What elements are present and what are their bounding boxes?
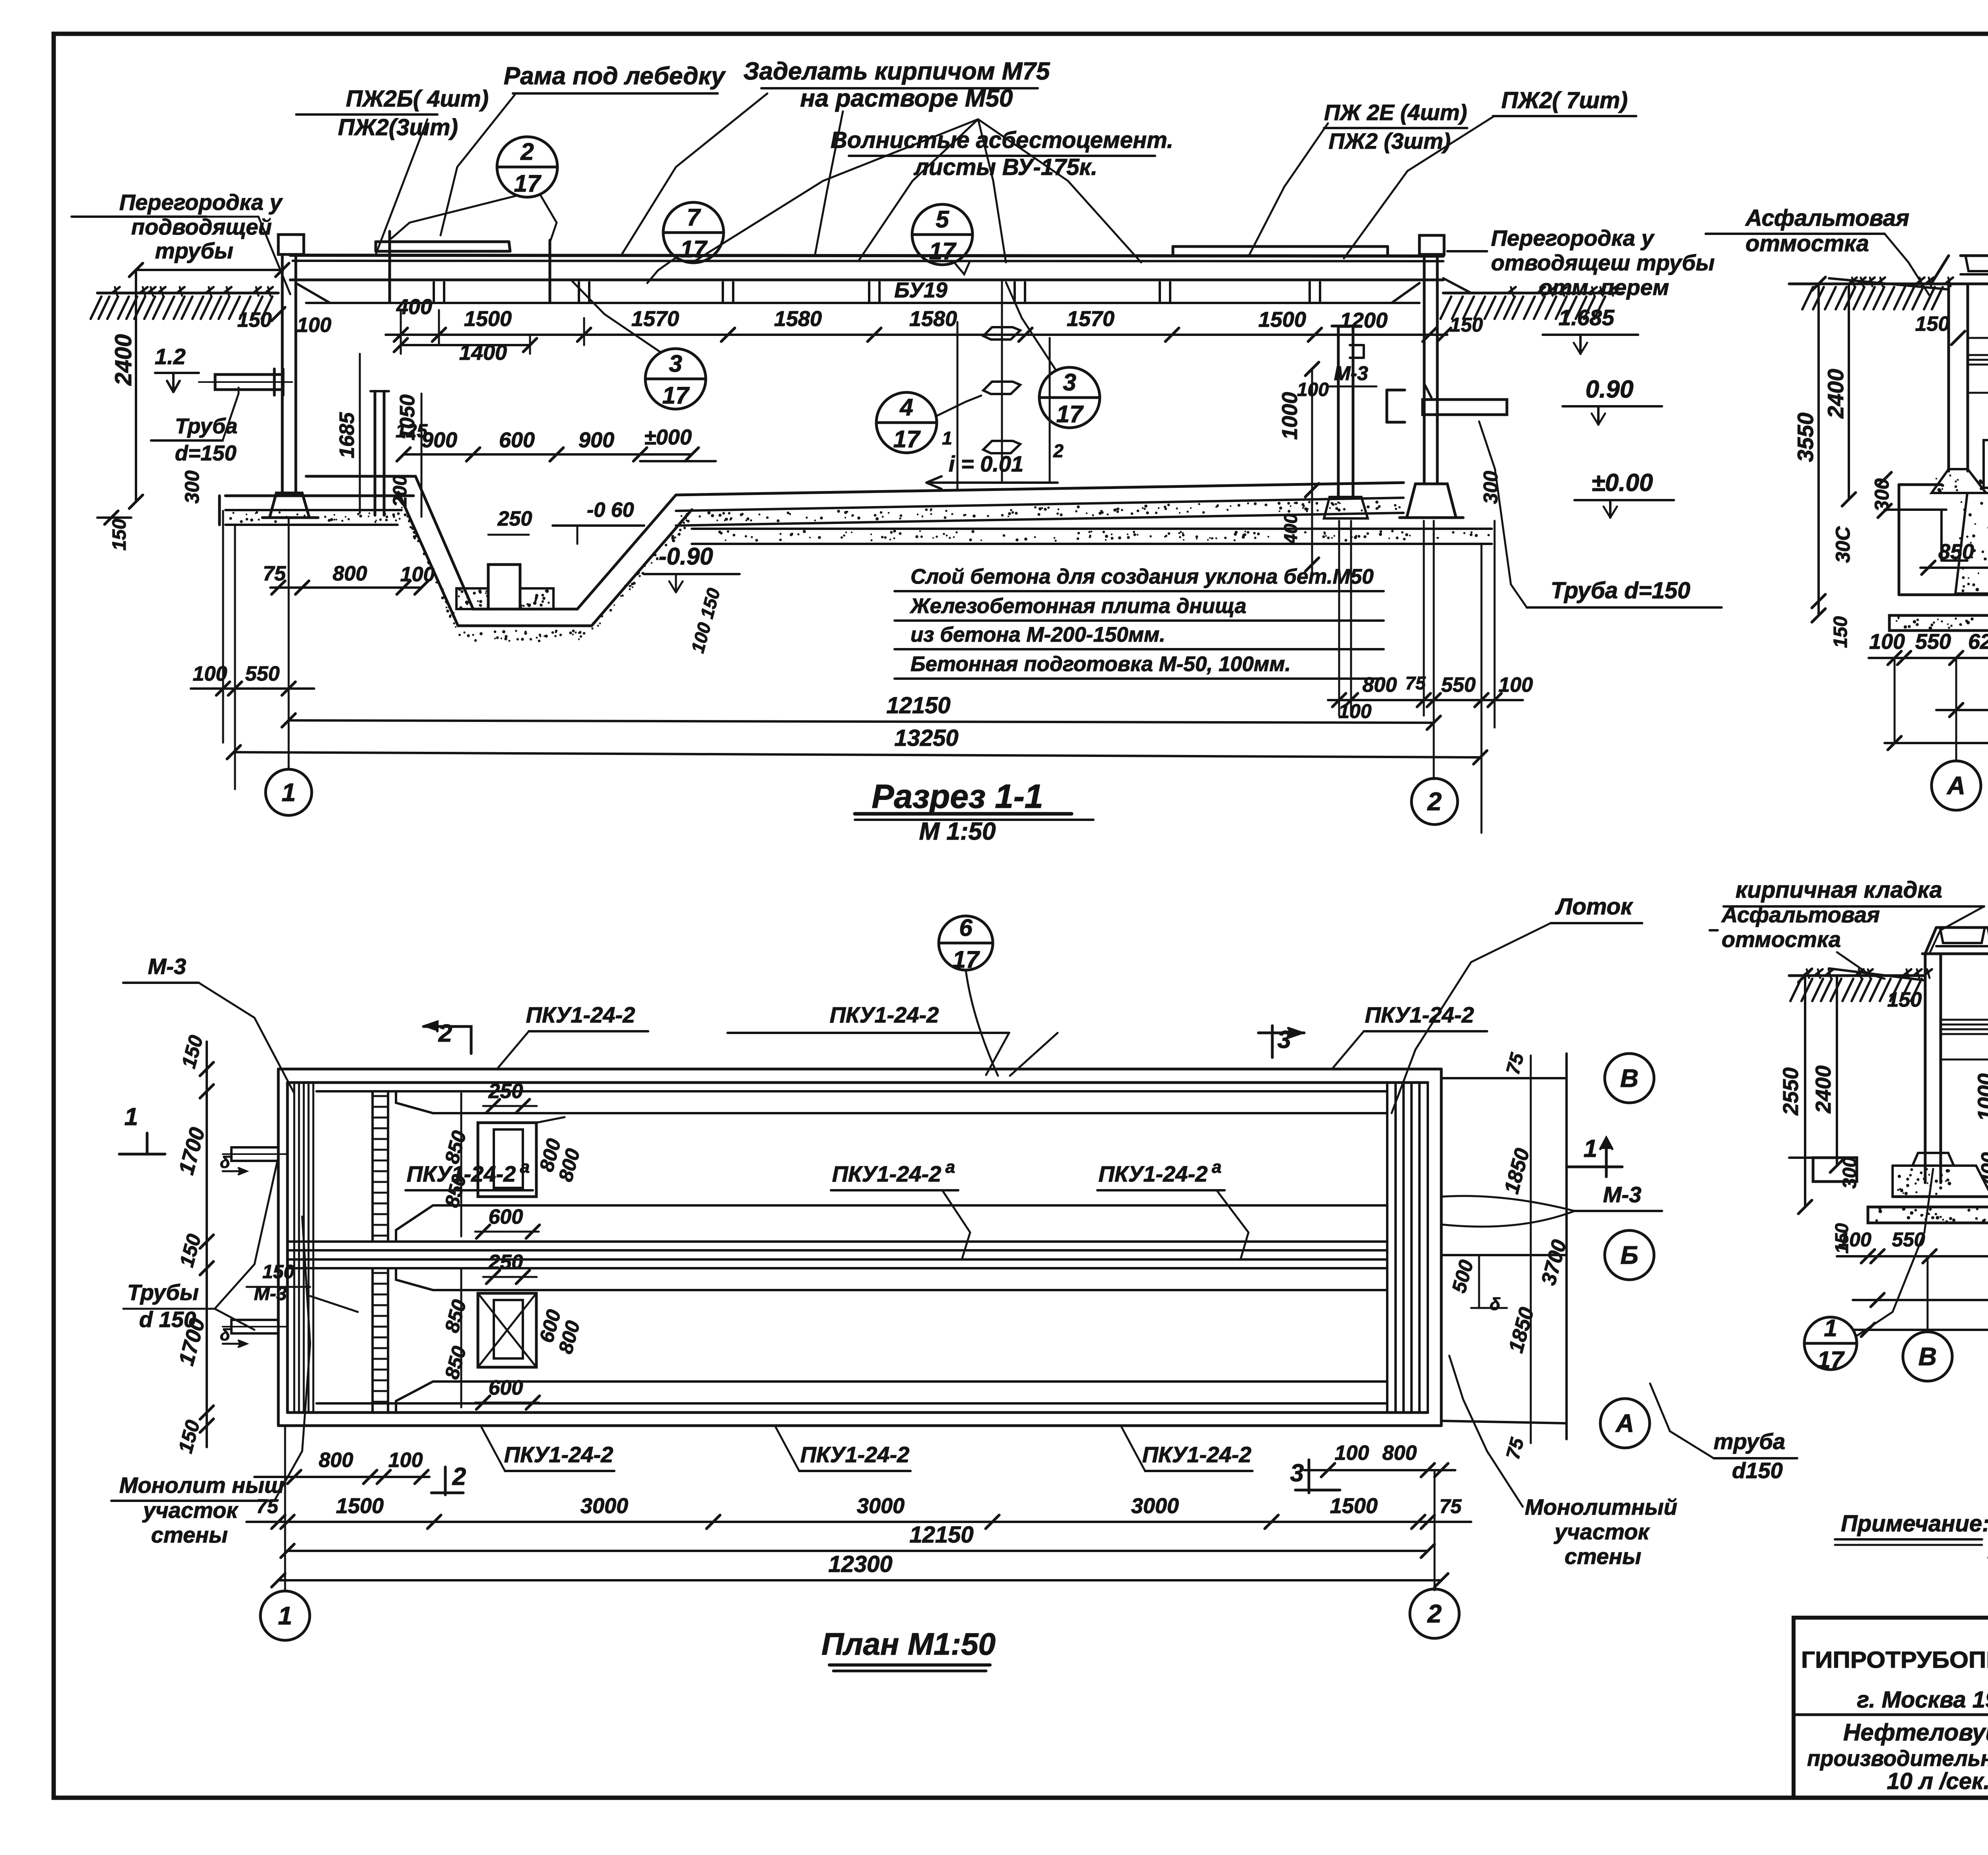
svg-text:1500: 1500 xyxy=(464,307,512,331)
svg-text:625: 625 xyxy=(1968,630,1988,654)
svg-text:2400: 2400 xyxy=(1823,369,1848,419)
svg-text:2550: 2550 xyxy=(1779,1067,1803,1116)
svg-text:100: 100 xyxy=(1869,630,1905,654)
svg-text:400: 400 xyxy=(1977,1152,1988,1186)
svg-text:300: 300 xyxy=(1839,1157,1860,1189)
svg-text:12300: 12300 xyxy=(828,1551,892,1577)
svg-text:1: 1 xyxy=(1584,1135,1597,1162)
svg-text:2: 2 xyxy=(1053,440,1064,461)
svg-text:150: 150 xyxy=(1450,314,1483,336)
svg-text:300: 300 xyxy=(181,470,203,504)
svg-text:δ: δ xyxy=(220,1325,230,1344)
svg-text:1570: 1570 xyxy=(631,307,679,331)
svg-text:Перегородка у: Перегородка у xyxy=(119,190,283,215)
svg-text:600: 600 xyxy=(489,1376,523,1399)
svg-text:550: 550 xyxy=(1915,630,1951,654)
svg-text:±0.00: ±0.00 xyxy=(1592,469,1653,497)
svg-text:2400: 2400 xyxy=(111,334,136,386)
svg-text:ПКУ1-24-2: ПКУ1-24-2 xyxy=(1142,1442,1252,1467)
svg-text:150: 150 xyxy=(1887,988,1922,1011)
svg-text:Труба d=150: Труба d=150 xyxy=(1551,578,1690,603)
svg-text:Примечание:: Примечание: xyxy=(1841,1511,1988,1537)
svg-text:А: А xyxy=(1615,1409,1634,1438)
svg-text:а: а xyxy=(945,1157,955,1177)
svg-text:ГИПРОТРУБОПРОВОД: ГИПРОТРУБОПРОВОД xyxy=(1801,1647,1988,1673)
svg-text:2: 2 xyxy=(1427,1599,1442,1628)
svg-text:1: 1 xyxy=(1824,1315,1837,1341)
svg-text:3: 3 xyxy=(1063,369,1076,396)
svg-text:М 1:50: М 1:50 xyxy=(919,818,996,845)
svg-text:δ: δ xyxy=(1490,1294,1501,1314)
svg-text:1.685: 1.685 xyxy=(1559,305,1615,330)
svg-text:2400: 2400 xyxy=(1811,1065,1835,1114)
svg-text:2: 2 xyxy=(520,138,534,165)
svg-text:1500: 1500 xyxy=(1330,1494,1378,1518)
svg-text:4: 4 xyxy=(899,394,913,421)
svg-text:3: 3 xyxy=(1290,1459,1304,1487)
svg-text:Волнистые асбестоцемент.: Волнистые асбестоцемент. xyxy=(831,127,1173,153)
svg-text:1570: 1570 xyxy=(1067,307,1114,331)
svg-text:550: 550 xyxy=(1892,1228,1925,1251)
svg-text:а: а xyxy=(1212,1157,1221,1177)
svg-text:3000: 3000 xyxy=(1131,1494,1179,1518)
svg-text:δ: δ xyxy=(220,1153,230,1172)
svg-text:17: 17 xyxy=(662,382,690,409)
svg-text:Перегородка у: Перегородка у xyxy=(1491,225,1655,250)
svg-text:2: 2 xyxy=(452,1463,466,1490)
svg-text:100: 100 xyxy=(297,314,332,337)
svg-text:10 л /сек.: 10 л /сек. xyxy=(1887,1768,1988,1794)
svg-text:200: 200 xyxy=(390,475,411,507)
svg-text:150: 150 xyxy=(109,519,130,551)
svg-text:1: 1 xyxy=(282,778,296,807)
svg-text:30С: 30С xyxy=(1832,526,1854,563)
svg-text:1685: 1685 xyxy=(336,412,359,458)
svg-text:ПКУ1-24-2: ПКУ1-24-2 xyxy=(1365,1002,1474,1027)
svg-text:150: 150 xyxy=(262,1261,294,1283)
svg-text:100: 100 xyxy=(388,1449,423,1472)
svg-text:800: 800 xyxy=(319,1449,353,1472)
svg-text:стены: стены xyxy=(1565,1544,1641,1569)
svg-text:17: 17 xyxy=(929,238,957,264)
svg-text:75: 75 xyxy=(256,1495,279,1517)
svg-text:250: 250 xyxy=(488,1080,523,1103)
svg-text:ПКУ1-24-2: ПКУ1-24-2 xyxy=(832,1161,942,1186)
svg-text:0.90: 0.90 xyxy=(1586,376,1634,403)
svg-text:1580: 1580 xyxy=(774,307,822,331)
svg-text:ПКУ1-24-2: ПКУ1-24-2 xyxy=(504,1442,613,1467)
svg-text:7: 7 xyxy=(687,204,701,231)
svg-text:d 150: d 150 xyxy=(139,1307,196,1332)
svg-text:г. Москва 1971: г. Москва 1971 xyxy=(1857,1687,1988,1713)
svg-text:подводящей: подводящей xyxy=(131,214,272,239)
svg-text:800: 800 xyxy=(1382,1442,1417,1465)
svg-text:Асфальтовая: Асфальтовая xyxy=(1745,205,1909,231)
svg-text:1500: 1500 xyxy=(336,1494,384,1518)
svg-text:ПКУ1-24-2: ПКУ1-24-2 xyxy=(800,1442,910,1467)
svg-text:i = 0.01: i = 0.01 xyxy=(949,451,1023,476)
svg-text:13250: 13250 xyxy=(894,725,958,751)
svg-text:±000: ±000 xyxy=(644,425,692,449)
svg-text:кирпичная кладка: кирпичная кладка xyxy=(1736,877,1942,903)
svg-text:1580: 1580 xyxy=(909,307,957,331)
svg-text:1: 1 xyxy=(124,1103,138,1131)
svg-text:ПЖ2(3шт): ПЖ2(3шт) xyxy=(338,114,458,140)
svg-text:150: 150 xyxy=(1830,616,1851,648)
svg-text:ПЖ2Б( 4шт): ПЖ2Б( 4шт) xyxy=(346,86,489,112)
svg-text:-0 60: -0 60 xyxy=(587,499,634,522)
svg-text:Лоток: Лоток xyxy=(1555,894,1634,920)
svg-text:ПКУ1-24-2: ПКУ1-24-2 xyxy=(830,1002,939,1027)
svg-text:отмостка: отмостка xyxy=(1722,927,1841,952)
svg-text:3550: 3550 xyxy=(1793,413,1818,462)
svg-text:-0.90: -0.90 xyxy=(659,543,713,570)
svg-text:ПКУ1-24-2: ПКУ1-24-2 xyxy=(526,1002,635,1027)
svg-text:300: 300 xyxy=(1479,471,1502,504)
svg-text:Железобетонная плита днища: Железобетонная плита днища xyxy=(909,594,1246,618)
svg-text:17: 17 xyxy=(1817,1347,1845,1373)
svg-text:Рама под лебедку: Рама под лебедку xyxy=(504,62,726,90)
svg-text:6: 6 xyxy=(959,914,973,941)
svg-text:на растворе М50: на растворе М50 xyxy=(800,85,1013,112)
svg-text:1400: 1400 xyxy=(459,341,507,365)
svg-text:ПЖ 2Е (4шт): ПЖ 2Е (4шт) xyxy=(1324,100,1467,125)
svg-text:М-3: М-3 xyxy=(1334,362,1368,384)
svg-text:400: 400 xyxy=(1280,513,1301,544)
svg-text:600: 600 xyxy=(489,1205,523,1228)
svg-text:М-3: М-3 xyxy=(148,954,186,979)
svg-text:900: 900 xyxy=(579,428,614,452)
svg-text:Б: Б xyxy=(1620,1241,1638,1269)
svg-text:В: В xyxy=(1620,1064,1639,1092)
svg-text:ПКУ1-24-2: ПКУ1-24-2 xyxy=(1099,1161,1208,1186)
svg-text:Нефтеловушки: Нефтеловушки xyxy=(1843,1719,1988,1746)
svg-text:17: 17 xyxy=(953,946,980,973)
svg-text:1500: 1500 xyxy=(1258,308,1306,332)
svg-text:1: 1 xyxy=(278,1601,292,1630)
svg-text:стены: стены xyxy=(151,1522,228,1547)
svg-text:800: 800 xyxy=(1363,673,1397,697)
svg-text:850: 850 xyxy=(1938,540,1974,564)
svg-text:550: 550 xyxy=(1441,673,1476,697)
svg-text:Бетонная подготовка М-50, 100м: Бетонная подготовка М-50, 100мм. xyxy=(911,652,1291,676)
svg-text:2: 2 xyxy=(1427,787,1442,816)
svg-text:БУ19: БУ19 xyxy=(894,278,947,302)
svg-text:ПЖ2 (3шт): ПЖ2 (3шт) xyxy=(1329,128,1451,153)
svg-text:1200: 1200 xyxy=(1340,309,1388,332)
svg-text:листы ВУ-175к.: листы ВУ-175к. xyxy=(913,154,1097,180)
svg-text:d150: d150 xyxy=(1732,1458,1783,1483)
svg-text:100: 100 xyxy=(1335,1442,1369,1465)
svg-text:550: 550 xyxy=(245,662,280,685)
svg-text:Разрез 1-1: Разрез 1-1 xyxy=(872,778,1043,815)
svg-text:труба: труба xyxy=(1714,1429,1785,1454)
svg-text:3000: 3000 xyxy=(580,1494,628,1518)
svg-text:1050: 1050 xyxy=(396,394,419,440)
svg-text:Монолитный: Монолитный xyxy=(1525,1494,1677,1519)
svg-text:1000: 1000 xyxy=(1974,1073,1988,1121)
svg-text:из бетона М-200-150мм.: из бетона М-200-150мм. xyxy=(911,623,1165,646)
svg-text:100: 100 xyxy=(1338,700,1372,722)
svg-text:3: 3 xyxy=(669,350,682,377)
svg-text:12150: 12150 xyxy=(909,1522,973,1548)
svg-text:600: 600 xyxy=(499,428,535,452)
svg-text:2: 2 xyxy=(438,1020,452,1047)
svg-text:150: 150 xyxy=(1915,312,1950,336)
svg-text:100: 100 xyxy=(193,662,227,685)
svg-text:75: 75 xyxy=(263,562,286,585)
svg-text:12150: 12150 xyxy=(886,693,950,718)
svg-text:17: 17 xyxy=(514,170,542,197)
svg-text:17: 17 xyxy=(893,426,921,452)
svg-text:отводящеш трубы: отводящеш трубы xyxy=(1491,250,1715,275)
svg-text:Заделать кирпичом М75: Заделать кирпичом М75 xyxy=(744,58,1050,85)
svg-text:отм. перем: отм. перем xyxy=(1539,275,1669,300)
svg-text:75: 75 xyxy=(1439,1495,1462,1517)
svg-text:1.2: 1.2 xyxy=(155,344,186,369)
svg-text:5: 5 xyxy=(936,206,949,233)
svg-text:М-3: М-3 xyxy=(1603,1182,1641,1207)
svg-text:ПЖ2( 7шт): ПЖ2( 7шт) xyxy=(1501,87,1628,113)
svg-text:Слой бетона для создания уклон: Слой бетона для создания уклона бет.М50 xyxy=(911,565,1374,588)
svg-text:250: 250 xyxy=(488,1251,523,1274)
svg-text:800: 800 xyxy=(333,562,367,585)
svg-text:1: 1 xyxy=(942,428,952,448)
svg-text:100: 100 xyxy=(1838,1228,1872,1251)
svg-text:ПКУ1-24-2: ПКУ1-24-2 xyxy=(407,1161,516,1186)
svg-text:100: 100 xyxy=(400,563,435,586)
svg-text:Трубы: Трубы xyxy=(127,1280,199,1305)
svg-text:Асфальтовая: Асфальтовая xyxy=(1721,902,1880,927)
svg-text:17: 17 xyxy=(680,236,708,262)
svg-text:250: 250 xyxy=(497,507,532,530)
svg-text:3000: 3000 xyxy=(857,1494,905,1518)
svg-text:В: В xyxy=(1918,1342,1937,1371)
svg-text:участок: участок xyxy=(1553,1519,1650,1544)
svg-text:трубы: трубы xyxy=(155,238,233,263)
svg-text:100: 100 xyxy=(1499,673,1533,697)
svg-text:А: А xyxy=(1946,771,1965,800)
svg-text:План М1:50: План М1:50 xyxy=(821,1626,996,1661)
svg-text:d=150: d=150 xyxy=(175,441,237,465)
svg-text:17: 17 xyxy=(1056,401,1084,427)
svg-text:а: а xyxy=(520,1157,530,1177)
svg-text:производительностью: производительностью xyxy=(1807,1746,1988,1771)
svg-text:150: 150 xyxy=(237,309,272,332)
